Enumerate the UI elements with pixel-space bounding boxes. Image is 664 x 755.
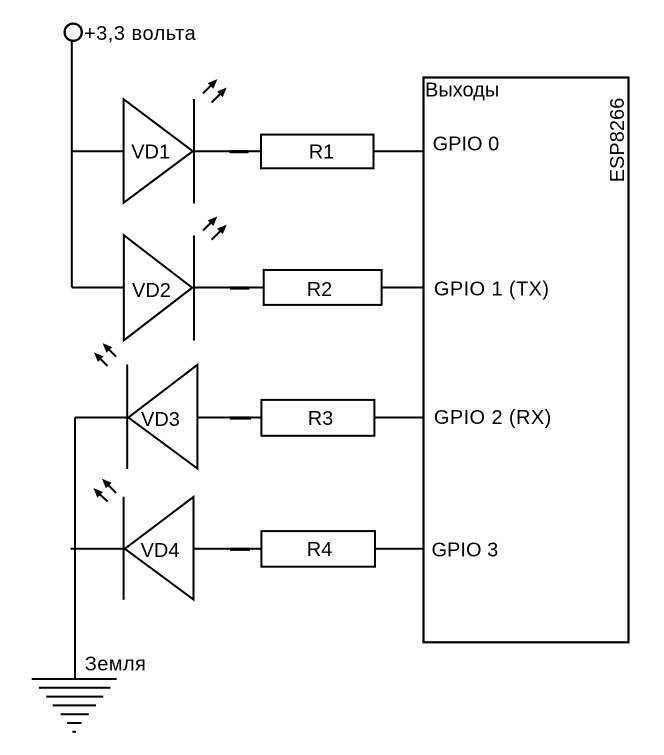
svg-text:VD3: VD3 [141, 409, 180, 431]
wire: VD3 anode to R3 [197, 417, 261, 419]
wire: VD4 anode to R4 [194, 548, 262, 550]
wire junction stub (thick overlap) row 4 [230, 548, 250, 551]
LED VD1 light arrow 2 [212, 89, 225, 102]
LED VD2 light arrow 1 [203, 218, 216, 230]
svg-text:Выходы: Выходы [425, 80, 499, 102]
LED VD3 cathode bar [126, 365, 128, 470]
svg-text:GPIO 3: GPIO 3 [432, 539, 499, 561]
svg-text:R2: R2 [307, 279, 333, 301]
wire: rail corner to VD2 anode [72, 287, 124, 289]
svg-text:R3: R3 [308, 408, 334, 430]
svg-text:Земля: Земля [85, 653, 146, 675]
svg-text:R4: R4 [307, 539, 333, 561]
wire: rail corner to VD3 cathode [75, 417, 128, 419]
wire: rail to VD1 anode [71, 150, 124, 152]
resistor R1 body [261, 135, 374, 169]
LED VD4 light arrow 1 [104, 481, 116, 493]
wire: R1 to GPIO 0 [374, 150, 424, 152]
LED VD2 light arrow 2 [212, 227, 225, 240]
svg-text:VD1: VD1 [131, 142, 170, 164]
resistor R4 body [261, 531, 375, 567]
LED VD1 cathode bar [193, 99, 195, 204]
+3.3V supply terminal [65, 24, 82, 41]
wire junction stub (thick overlap) row 2 [230, 286, 250, 289]
wire: R3 to GPIO 2 [374, 417, 423, 419]
svg-text:GPIO 0: GPIO 0 [433, 133, 500, 155]
LED VD2 triangle [124, 235, 192, 340]
svg-text:VD4: VD4 [141, 540, 180, 562]
wire: ground rail vertical [74, 418, 76, 680]
svg-text:+3,3 вольта: +3,3 вольта [84, 23, 197, 45]
svg-text:R1: R1 [309, 142, 335, 164]
wire: VD2 cathode to R2 [194, 287, 264, 289]
wire: rail junction to VD4 cathode [71, 548, 125, 550]
svg-text:ESP8266: ESP8266 [607, 98, 629, 183]
wire: R2 to GPIO 1 [382, 287, 424, 289]
svg-text:GPIO 1 (TX): GPIO 1 (TX) [434, 279, 550, 301]
svg-text:GPIO 2 (RX): GPIO 2 (RX) [434, 407, 552, 429]
LED VD4 cathode bar [123, 497, 125, 600]
ground symbol [32, 679, 117, 732]
resistor R2 body [264, 270, 382, 305]
wire: +3.3V rail vertical [71, 41, 73, 287]
svg-text:VD2: VD2 [132, 280, 171, 302]
LED VD3 triangle [128, 365, 197, 469]
LED VD3 light arrow 1 [104, 345, 116, 357]
LED VD1 triangle [124, 99, 193, 203]
wire junction stub (thick overlap) row 1 [230, 150, 249, 153]
LED VD1 light arrow 1 [203, 81, 216, 93]
LED VD2 cathode bar [193, 236, 195, 341]
LED VD3 light arrow 2 [96, 354, 108, 366]
LED VD4 triangle [125, 497, 194, 600]
IC U1 ESP8266 box [424, 78, 629, 643]
resistor R3 body [261, 400, 374, 436]
wire: VD1 cathode to R1 [194, 150, 262, 152]
LED VD4 light arrow 2 [95, 490, 108, 502]
wire junction stub (thick overlap) row 3 [230, 416, 251, 419]
wire: R4 to GPIO 3 [375, 548, 424, 550]
